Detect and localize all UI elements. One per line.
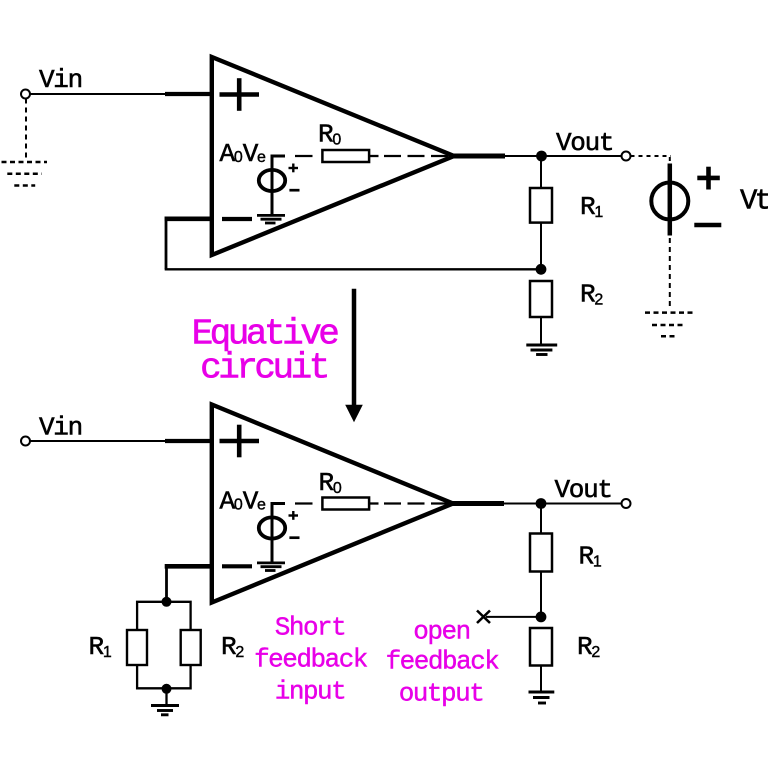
svg-text:open: open	[413, 617, 469, 647]
wire R1 (bottom)	[540, 504, 542, 617]
svg-text:Vout: Vout	[555, 475, 612, 505]
wire output (top)	[452, 154, 622, 159]
wire output (bottom)	[451, 501, 622, 506]
polarity minus of Vt	[694, 223, 721, 228]
wire R2 to ground (bottom)	[540, 666, 542, 693]
polarity minus of A0Ve source (top)	[289, 189, 299, 192]
wire Vin to op-amp + input (bottom)	[30, 440, 213, 442]
label open feedback output	[386, 617, 500, 709]
svg-text:Vout: Vout	[556, 128, 613, 158]
op-amp U1 plus input symbol	[220, 78, 260, 111]
dependent source A0Ve (top)	[259, 156, 285, 214]
open mark x (bottom)	[477, 611, 490, 624]
wire inverting input feedback (top)	[165, 217, 541, 270]
node Vin terminal (top)	[21, 90, 30, 99]
resistor R0 (top)	[322, 150, 369, 162]
ground dashed below Vt	[645, 313, 694, 337]
wire dotted Vout to Vt	[631, 155, 672, 157]
arrow equivalence	[345, 289, 363, 423]
wire dashed internal to R0 (bottom)	[295, 502, 453, 504]
wire dashed Vt to ground	[669, 238, 671, 310]
label Short feedback input	[254, 613, 368, 707]
op-amp U1 triangle	[212, 57, 454, 255]
ground inside op-amp U1	[257, 215, 285, 223]
svg-text:input: input	[275, 677, 346, 707]
ground below R2 (top)	[526, 345, 557, 355]
node open feedback junction (bottom)	[536, 612, 547, 623]
svg-text:Vin: Vin	[39, 413, 82, 443]
resistor R2 (top)	[530, 281, 552, 317]
node parallel top junction (bottom)	[162, 597, 172, 607]
svg-text:feedback: feedback	[254, 645, 368, 675]
wire R1 (top)	[540, 156, 542, 269]
ground below R2 (bottom)	[529, 692, 555, 703]
wire open feedback stub (bottom)	[486, 616, 537, 618]
node output junction (bottom)	[536, 498, 547, 509]
node Vout terminal (top)	[622, 152, 631, 161]
wire R2 to ground (top)	[540, 317, 542, 345]
svg-text:circuit: circuit	[200, 348, 327, 389]
polarity plus of Vt	[697, 167, 720, 190]
wire dashed Vin to ground (top)	[25, 99, 27, 161]
svg-text:output: output	[399, 679, 484, 709]
svg-text:Vt: Vt	[740, 185, 768, 218]
ground below parallel network (bottom)	[151, 706, 179, 715]
wire dashed internal to R0 (top)	[295, 155, 454, 157]
svg-text:Vin: Vin	[39, 65, 82, 95]
op-amp U2 triangle	[212, 405, 453, 603]
svg-text:feedback: feedback	[386, 647, 500, 677]
polarity plus of A0Ve source (top)	[289, 164, 299, 173]
wire parallel network rails (bottom)	[137, 602, 191, 706]
polarity plus of A0Ve source (bottom)	[289, 511, 299, 520]
resistor R0 (bottom)	[322, 498, 369, 510]
resistor R2 parallel (bottom)	[181, 630, 201, 665]
node Vin terminal (bottom)	[21, 437, 30, 446]
wire Vin to op-amp + input (top)	[30, 93, 213, 95]
ground dashed at Vin (top)	[2, 162, 48, 186]
wire inverting input to parallel network (bottom)	[165, 564, 212, 602]
svg-text:Short: Short	[275, 613, 346, 643]
resistor R1 (bottom)	[530, 534, 552, 572]
node feedback junction (top)	[536, 264, 547, 275]
op-amp U2 plus input symbol	[220, 425, 260, 458]
node Vout terminal (bottom)	[622, 499, 631, 508]
node output junction (top)	[536, 151, 547, 162]
polarity minus of A0Ve source (bottom)	[289, 536, 299, 539]
resistor R2 (bottom)	[530, 628, 552, 666]
node parallel bottom junction (bottom)	[162, 684, 172, 694]
voltage source Vt	[651, 164, 688, 236]
ground inside op-amp U2	[257, 563, 285, 571]
resistor R1 (top)	[530, 188, 552, 223]
resistor R1 parallel (bottom)	[127, 630, 147, 665]
op-amp U2 minus input symbol	[222, 564, 252, 568]
op-amp U1 minus input symbol	[222, 217, 252, 221]
dependent source A0Ve (bottom)	[259, 504, 285, 562]
label Equative circuit	[192, 314, 339, 389]
